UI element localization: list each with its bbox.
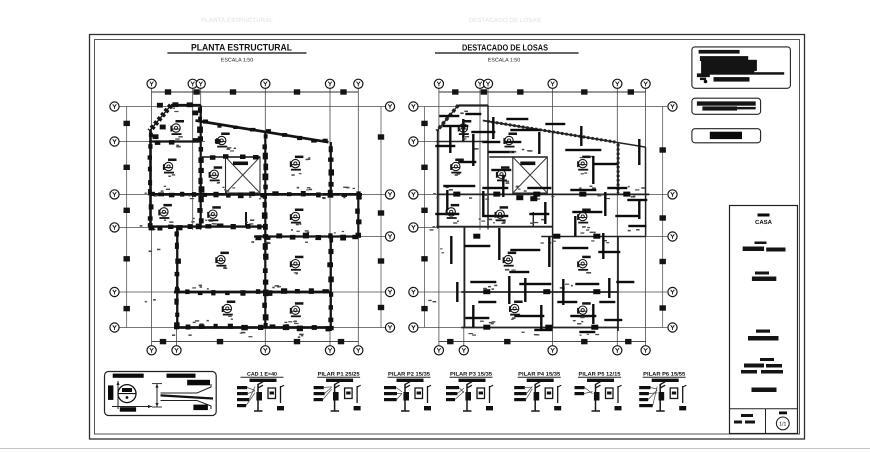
stair opening X plan 1 [226,157,261,193]
beam row4 plan 2 [436,226,552,228]
axis bubble [409,190,418,199]
svg-text:DESTACADO DE LOSAS: DESTACADO DE LOSAS [462,43,548,53]
slab label L2 plan 1 [216,133,230,148]
stair wall plan 2 [487,105,489,228]
axis bubble [385,287,394,296]
slab label L11 plan 1 [222,301,236,316]
right wall lower plan 1 [330,237,332,332]
sloped roof beam plan 2 [483,121,616,143]
slab label L9 plan 1 [215,252,229,267]
axis bubble [354,79,363,88]
sheet number circle [779,412,787,415]
grid lines plan 2 [438,89,440,346]
notes box 3 [692,129,761,143]
sheet inner border [95,40,800,435]
legend axes figure [117,381,119,409]
slab label L7 plan 1 [207,206,221,221]
axis bubble [409,102,418,111]
axis bubble [385,323,394,332]
dimension lines plan 2 [424,107,426,328]
small wall plan 2 [532,212,534,227]
main beam row3 plan 2 [437,193,649,195]
notes box 1 [692,47,791,88]
beam row4 plan 1 [149,225,265,227]
slab label L4 plan 2 [577,156,591,171]
axis bubble [325,79,334,88]
legend beam figure [156,384,158,407]
svg-text:1/1: 1/1 [779,422,786,428]
axis bubble [188,79,197,88]
axis bubble [409,137,418,146]
top edge wall plan 1 [171,104,201,107]
axis bubble [475,79,484,88]
footer marks [734,414,755,424]
slab label L9 plan 2 [503,252,517,267]
axis bubble [325,346,334,355]
svg-text:ESCALA 1:50: ESCALA 1:50 [488,58,520,64]
top-left diagonal wall plan 2 [437,105,459,131]
svg-text:PLANTA ESTRUCTURAL: PLANTA ESTRUCTURAL [201,17,274,24]
axis bubble [409,223,418,232]
right wall upper plan 1 [330,142,332,194]
svg-text:CASA: CASA [755,219,773,226]
title block bars [743,247,764,252]
beam row5 plan 1 [174,291,331,294]
axis bubble [668,287,677,296]
slab label L4 plan 1 [290,156,304,171]
stair opening bar plan 2 [520,162,535,166]
slab label L7 plan 2 [495,206,509,221]
axis bubble [613,79,622,88]
axis bubble [110,190,119,199]
slab label L6 plan 2 [446,204,460,219]
beam half row plan 1 [254,235,358,237]
top-left diagonal wall plan 1 [150,105,172,131]
annotation text specks plan 2 [460,112,463,114]
sloped slab edge extension plan 2 [616,142,646,147]
svg-text:DESTACADO DE LOSAS: DESTACADO DE LOSAS [469,17,541,24]
stair opening X plan 2 [513,157,548,193]
axis bubble [668,323,677,332]
axis bubble [385,190,394,199]
stair wall plan 1 [200,105,202,228]
slab label L12 plan 1 [290,302,304,317]
dimension markers plan 2 [421,121,427,126]
svg-text:PLANTA ESTRUCTURAL: PLANTA ESTRUCTURAL [191,42,292,53]
left wall plan 2 [437,130,439,229]
sloped roof beam plan 1 [196,121,329,143]
beam row2 plan 2 [436,141,488,143]
legend top bars [113,374,144,378]
stair opening bar plan 1 [233,162,248,166]
detail PILAR P1 25/25 [314,372,361,411]
small wall plan 1 [245,212,247,227]
axis bubble [613,346,622,355]
axis bubble [385,232,394,241]
sloped beam hatch plan 2 [487,121,617,142]
slab label L8 plan 2 [577,209,591,224]
bottom beam plan 2 [461,327,619,329]
svg-text:ESCALA 1:50: ESCALA 1:50 [221,58,253,64]
far right wall plan 1 [357,194,359,236]
axis bubble [548,79,557,88]
axis bubble [261,79,270,88]
legend box [105,372,217,416]
title block footer divider [730,408,798,410]
axis bubble [172,346,181,355]
slab label L12 plan 2 [577,302,591,317]
axis bubble [409,287,418,296]
title block frame [730,206,798,434]
slab label L1 plan 2 [458,120,472,135]
axis bubble [147,79,156,88]
slab label L10 plan 1 [290,256,304,271]
main beam row3 plan 1 [150,193,362,196]
center wall plan 2 [552,132,554,328]
grid lines plan 1 [151,89,153,346]
slab label L5 plan 1 [209,166,223,181]
stair top beam plan 2 [489,156,547,158]
detail PILAR P3 15/35 [446,372,493,411]
axis bubble [434,79,443,88]
slab label L3 plan 1 [163,159,177,174]
axis bubble [668,102,677,111]
detail PILAR P5 12/15 [575,372,622,411]
axis bubble [548,346,557,355]
axis bubble [261,346,270,355]
axis bubble [483,79,492,88]
axis bubble [110,102,119,111]
axis bubble [110,323,119,332]
axis bubble [147,346,156,355]
axis bubble [110,287,119,296]
axis bubble [110,137,119,146]
axis bubble [385,102,394,111]
axis bubble [668,190,677,199]
detail PILAR P4 15/35 [514,372,561,411]
slab label L11 plan 2 [509,301,523,316]
slab reinforcement bars plan 2 [435,113,647,333]
annotation text specks plan 1 [173,108,176,109]
right wall lower plan 2 [617,237,619,332]
detail PILAR P2 15/35 [384,372,431,411]
sheet outer border [90,35,805,440]
lower-left wall plan 2 [464,227,466,328]
axis bubble [409,323,418,332]
right wall upper plan 2 [617,142,619,194]
axis bubble [110,223,119,232]
slab label L6 plan 1 [158,204,172,219]
dimension markers plan 1 [124,121,130,126]
far right wall plan 2 [645,194,647,236]
stair top beam plan 1 [202,156,260,158]
detail CAD 1 E=40 [237,372,284,411]
slab label L10 plan 2 [577,256,591,271]
dimension lines plan 1 [126,107,128,328]
title block CASA [758,214,770,217]
bottom beam plan 1 [174,326,332,329]
slab label L3 plan 2 [450,159,464,174]
axis bubble [434,346,443,355]
beam row2 plan 1 [149,140,201,142]
slab label L1 plan 1 [170,120,184,135]
notes box 2 [692,98,761,114]
axis bubble [459,346,468,355]
columns plan 1 [148,102,362,331]
top edge wall plan 2 [458,104,488,106]
axis bubble [668,232,677,241]
axis bubble [641,79,650,88]
beam row5 plan 2 [461,291,618,293]
slab label L8 plan 1 [290,209,304,224]
slab label L2 plan 2 [503,133,517,148]
center wall plan 1 [264,132,266,328]
far right wall upper plan 2 [645,147,647,194]
beam half row plan 2 [541,236,645,238]
left wall plan 1 [149,130,151,229]
page bottom rule [0,448,870,450]
axis bubble [641,346,650,355]
axis bubble [354,346,363,355]
slab label L5 plan 2 [496,166,510,181]
axis bubble [196,79,205,88]
detail PILAR P6 15/55 [639,372,686,411]
lower-left wall plan 1 [176,227,178,328]
